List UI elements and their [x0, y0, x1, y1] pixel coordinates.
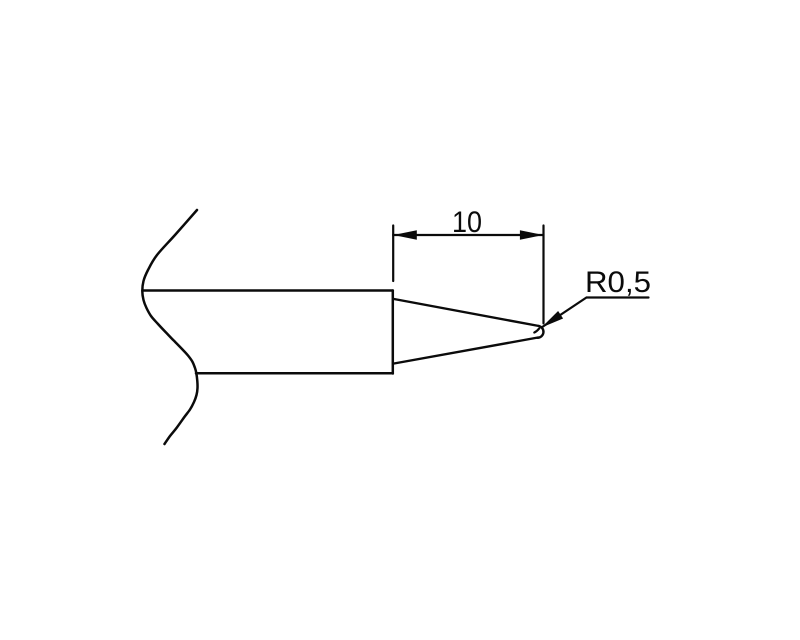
svg-text:10: 10 [452, 206, 482, 239]
svg-text:R0,5: R0,5 [585, 266, 651, 299]
